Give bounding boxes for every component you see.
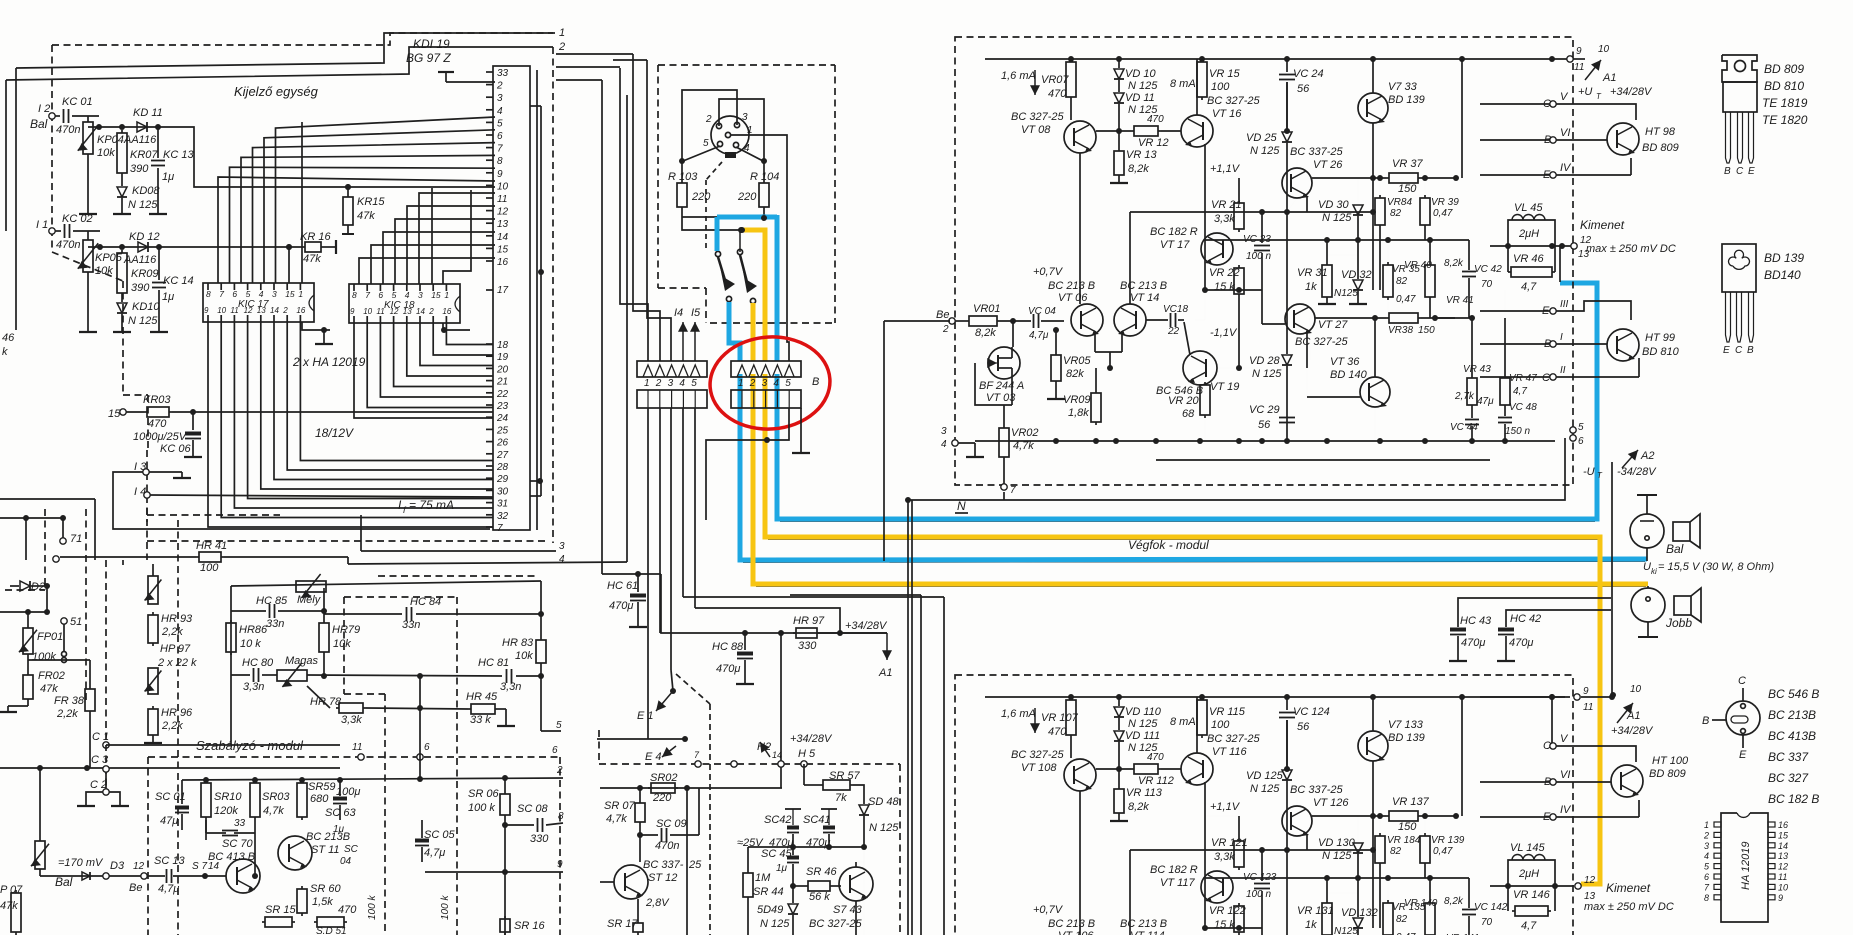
bus fan below KIC17 <box>208 322 493 527</box>
svg-text:11: 11 <box>1583 702 1593 713</box>
svg-text:16: 16 <box>1778 820 1788 830</box>
svg-text:0,47: 0,47 <box>1433 208 1453 219</box>
svg-text:14: 14 <box>416 307 425 316</box>
wire y290 row <box>1205 289 1262 291</box>
svg-text:VR 46: VR 46 <box>1513 253 1544 265</box>
svg-text:3: 3 <box>941 426 947 437</box>
svg-text:V7 33: V7 33 <box>1388 81 1418 93</box>
diode VD30 N125 <box>1353 843 1363 853</box>
dashed actuator link <box>706 162 722 180</box>
svg-text:4,7μ: 4,7μ <box>1029 330 1049 341</box>
svg-text:A1: A1 <box>1602 72 1616 84</box>
svg-text:6: 6 <box>552 745 558 756</box>
svg-text:28: 28 <box>496 462 509 473</box>
svg-text:Kijelző egység: Kijelző egység <box>234 84 319 99</box>
wire HC43 <box>1458 598 1611 627</box>
wire node7 stub <box>1003 492 1005 500</box>
connector strip B upper <box>731 361 801 377</box>
svg-text:VL 45: VL 45 <box>1514 202 1543 214</box>
svg-text:N: N <box>957 499 966 513</box>
svg-text:2: 2 <box>556 765 563 776</box>
resistor VR31 1k <box>1326 900 1328 903</box>
svg-text:VR84: VR84 <box>1387 197 1412 208</box>
svg-text:2: 2 <box>1703 830 1709 840</box>
svg-text:BD 139: BD 139 <box>1388 94 1425 106</box>
amp top rail <box>985 696 1570 698</box>
pot Magas <box>277 670 307 681</box>
svg-text:BC 337-25: BC 337-25 <box>1290 784 1343 796</box>
svg-text:AA116: AA116 <box>123 254 157 266</box>
svg-text:71: 71 <box>70 533 82 545</box>
svg-text:VR 13: VR 13 <box>1126 149 1157 161</box>
svg-text:8: 8 <box>1704 893 1709 903</box>
svg-text:SR 15: SR 15 <box>265 904 296 916</box>
wire y633 row <box>661 574 887 633</box>
arrow A2 <box>1622 450 1638 468</box>
svg-text:14: 14 <box>270 306 279 315</box>
wire DIN pin5 <box>683 146 720 161</box>
svg-text:VR 122: VR 122 <box>1209 905 1246 917</box>
node Kimenet 12 13 top amp <box>1571 243 1577 249</box>
wire KIC17 pin15 to KR16 <box>288 247 290 283</box>
svg-text:VT 16: VT 16 <box>1212 108 1242 120</box>
wire bus line 1 top <box>16 33 553 68</box>
svg-text:VC 24: VC 24 <box>1293 68 1324 80</box>
svg-text:VR 146: VR 146 <box>1513 889 1551 901</box>
svg-text:470: 470 <box>338 904 357 916</box>
capacitor SC41 470u <box>828 809 830 825</box>
svg-text:VI: VI <box>1560 769 1570 781</box>
svg-text:33: 33 <box>497 68 509 79</box>
resistor VR13 8,2k <box>1118 769 1120 786</box>
svg-text:VR 131: VR 131 <box>1297 905 1334 917</box>
svg-text:FR02: FR02 <box>38 670 65 682</box>
wire stubs right edge <box>556 66 620 68</box>
wire node 9 11 bottom <box>1480 696 1565 698</box>
svg-text:C 3: C 3 <box>91 754 109 766</box>
svg-text:BD 809: BD 809 <box>1642 142 1679 154</box>
svg-text:BD 809: BD 809 <box>1649 768 1686 780</box>
svg-text:N 125: N 125 <box>128 315 158 327</box>
svg-text:4,7k: 4,7k <box>1013 440 1034 452</box>
svg-text:56: 56 <box>1258 419 1271 431</box>
wire DIN pin4 <box>736 147 763 161</box>
svg-text:VR 139: VR 139 <box>1431 835 1465 846</box>
svg-text:+34/28V: +34/28V <box>790 733 833 745</box>
resistor VR39 0,47 <box>1424 833 1426 836</box>
svg-text:0,47: 0,47 <box>1396 294 1416 305</box>
node H5 <box>801 761 807 767</box>
dashed mid border <box>598 730 600 764</box>
svg-text:20: 20 <box>496 364 509 375</box>
svg-text:16: 16 <box>497 257 509 268</box>
wire <box>863 847 865 935</box>
black wire under blue to Bal <box>743 561 1645 562</box>
svg-text:56 k: 56 k <box>809 891 830 903</box>
svg-text:+1,1V: +1,1V <box>1210 163 1241 175</box>
wire Magas row <box>307 675 502 676</box>
svg-text:I 1: I 1 <box>36 219 48 231</box>
svg-text:1,8k: 1,8k <box>1068 407 1089 419</box>
bus fan to KIC18 <box>359 258 495 284</box>
svg-text:B: B <box>812 376 819 388</box>
svg-text:BC 327-25: BC 327-25 <box>809 918 862 930</box>
svg-text:VR 20: VR 20 <box>1168 395 1199 407</box>
resistor VR15 100 <box>1201 697 1203 700</box>
svg-text:VC 124: VC 124 <box>1293 706 1330 718</box>
svg-text:ST 12: ST 12 <box>648 872 677 884</box>
wire y847 row <box>748 846 864 848</box>
svg-text:VC 48: VC 48 <box>1509 402 1537 413</box>
svg-text:15: 15 <box>497 244 509 255</box>
svg-text:2: 2 <box>558 41 565 53</box>
svg-text:4,7μ: 4,7μ <box>158 883 179 895</box>
resistor FR02 47k <box>27 672 29 675</box>
pot FP01 100k <box>25 609 31 615</box>
resistor VR09 1,8k <box>1095 390 1097 393</box>
svg-text:U: U <box>1643 561 1651 573</box>
diode KD08 N125 <box>117 187 127 197</box>
svg-text:VT 27: VT 27 <box>1318 319 1348 331</box>
svg-text:= 75 mA: = 75 mA <box>409 498 454 512</box>
wire VT08 emitter to VT06 collector <box>1079 791 1081 935</box>
svg-text:BC 213 B: BC 213 B <box>1048 918 1095 930</box>
resistor VR84 82 <box>1379 833 1381 836</box>
wire y290 row <box>1205 927 1262 929</box>
wire node 2 row <box>419 676 421 778</box>
arrow A1 bottom <box>1617 703 1633 723</box>
svg-text:33: 33 <box>234 818 246 829</box>
svg-text:47k: 47k <box>40 683 58 695</box>
svg-text:10: 10 <box>1598 44 1610 55</box>
svg-text:47k: 47k <box>0 900 18 912</box>
svg-text:Szabályzó - modul: Szabályzó - modul <box>196 738 304 753</box>
svg-text:BC 413 B: BC 413 B <box>208 851 255 863</box>
svg-text:VR 22: VR 22 <box>1209 267 1240 279</box>
svg-text:I: I <box>1560 332 1563 343</box>
svg-text:100k: 100k <box>32 651 56 663</box>
svg-text:VR 39: VR 39 <box>1431 197 1459 208</box>
svg-text:E 4: E 4 <box>645 751 662 763</box>
svg-text:1,6 mA: 1,6 mA <box>1001 70 1036 82</box>
diode VD25 <box>1284 128 1290 134</box>
blue wire right branch to connector pin4 <box>775 215 780 361</box>
svg-text:33 k: 33 k <box>470 714 491 726</box>
svg-text:47μ: 47μ <box>160 815 178 827</box>
svg-text:10: 10 <box>1778 882 1788 892</box>
wire R104 bottom <box>763 210 765 217</box>
ground strip B <box>800 408 802 448</box>
svg-text:BC 327-25: BC 327-25 <box>1207 95 1260 107</box>
node 11 <box>358 754 364 760</box>
svg-text:KR03: KR03 <box>143 394 171 406</box>
svg-text:VT 19: VT 19 <box>1210 381 1239 393</box>
amp wire top right <box>1461 59 1463 178</box>
svg-text:KD08: KD08 <box>132 185 160 197</box>
svg-text:10: 10 <box>497 181 509 192</box>
node Kimenet 12 13 bottom amp <box>1575 883 1581 889</box>
svg-text:8,2k: 8,2k <box>1128 163 1149 175</box>
svg-text:BC 213 B: BC 213 B <box>1120 280 1167 292</box>
wire <box>88 246 160 248</box>
node 51 <box>61 618 67 624</box>
svg-text:SR 16: SR 16 <box>514 920 545 932</box>
svg-text:21: 21 <box>496 377 508 388</box>
wire mid column <box>1204 166 1206 290</box>
svg-text:SR59: SR59 <box>308 781 336 793</box>
resistor VR35 82 <box>1387 262 1389 265</box>
svg-text:25: 25 <box>496 425 509 436</box>
diode VD25 <box>1284 766 1290 772</box>
capacitor VC24 56 <box>1286 697 1288 710</box>
pot input Bal <box>39 768 41 841</box>
svg-text:150: 150 <box>1418 325 1435 336</box>
svg-text:220: 220 <box>652 792 672 804</box>
svg-text:Bal: Bal <box>55 875 73 889</box>
svg-text:III: III <box>1560 299 1569 310</box>
svg-text:R 104: R 104 <box>750 171 779 183</box>
svg-text:BC 327-25: BC 327-25 <box>1011 111 1064 123</box>
svg-text:D3: D3 <box>110 860 125 872</box>
svg-text:100 n: 100 n <box>1246 251 1271 262</box>
svg-text:9: 9 <box>1778 893 1783 903</box>
wire 3 line <box>360 515 362 551</box>
svg-text:HC 42: HC 42 <box>1510 613 1541 625</box>
wire HC42 <box>1506 610 1611 627</box>
svg-text:SR 46: SR 46 <box>806 866 837 878</box>
svg-text:3: 3 <box>1704 841 1709 851</box>
svg-text:10k: 10k <box>333 638 351 650</box>
wire VT14 collector up <box>1129 850 1131 935</box>
svg-text:11: 11 <box>1574 62 1584 73</box>
svg-text:3: 3 <box>418 290 423 300</box>
svg-text:2: 2 <box>282 306 288 315</box>
svg-text:56: 56 <box>1297 83 1310 95</box>
svg-text:A1: A1 <box>1626 710 1640 722</box>
connector column <box>493 66 530 530</box>
svg-text:9: 9 <box>497 169 503 180</box>
svg-text:2 x 22 k: 2 x 22 k <box>157 657 197 669</box>
svg-text:100 k: 100 k <box>468 802 495 814</box>
diode KD10 N125 <box>117 303 127 313</box>
resistor SR10 120k <box>205 780 207 783</box>
svg-text:HR 78: HR 78 <box>310 696 342 708</box>
svg-text:VR 107: VR 107 <box>1041 712 1079 724</box>
svg-text:1: 1 <box>559 27 565 39</box>
svg-text:8 mA: 8 mA <box>1170 716 1196 728</box>
svg-text:B: B <box>1724 166 1731 177</box>
svg-text:BC 327: BC 327 <box>1768 771 1809 785</box>
resistor VR12 470 <box>1131 130 1134 132</box>
wire <box>28 659 90 661</box>
svg-text:KR 16: KR 16 <box>300 231 331 243</box>
svg-text:VC 142: VC 142 <box>1474 902 1508 913</box>
wires into strip A <box>620 68 648 361</box>
wire R103 bottom <box>682 210 741 230</box>
resistor VR21 3,3k <box>1238 200 1240 203</box>
svg-text:SC: SC <box>344 844 359 855</box>
yellow wire pin3 to bottom amp Kimenet <box>765 374 1600 884</box>
svg-text:25: 25 <box>688 859 702 871</box>
svg-text:N 125: N 125 <box>1250 783 1280 795</box>
svg-text:VR38: VR38 <box>1388 325 1413 336</box>
svg-text:6: 6 <box>1704 872 1709 882</box>
svg-text:VR 140: VR 140 <box>1404 898 1438 909</box>
svg-text:3: 3 <box>668 378 674 389</box>
svg-text:k: k <box>2 346 8 358</box>
svg-text:470n: 470n <box>56 239 80 251</box>
svg-text:VT 114: VT 114 <box>1130 930 1165 935</box>
svg-text:TE 1819: TE 1819 <box>1762 96 1808 110</box>
resistor VR40 0,47 <box>1429 262 1431 265</box>
svg-text:KDI 19: KDI 19 <box>413 37 450 51</box>
svg-text:VR 37: VR 37 <box>1392 158 1423 170</box>
IC package HA12019 DIP16 <box>1721 813 1768 922</box>
wire <box>1372 761 1374 928</box>
svg-text:9: 9 <box>1576 46 1582 57</box>
svg-text:2: 2 <box>428 307 434 316</box>
svg-text:10 k: 10 k <box>240 638 261 650</box>
svg-text:4,7k: 4,7k <box>263 805 284 817</box>
diode VD32 N125 <box>1353 918 1363 928</box>
svg-text:BD 810: BD 810 <box>1642 346 1680 358</box>
svg-text:TE 1820: TE 1820 <box>1762 113 1808 127</box>
svg-text:8: 8 <box>558 811 564 822</box>
inductor VL45 2uH <box>1508 220 1555 246</box>
svg-text:HC 85: HC 85 <box>256 595 288 607</box>
wire VT27 down <box>1309 333 1311 360</box>
svg-text:HT 100: HT 100 <box>1652 755 1689 767</box>
svg-text:N 125: N 125 <box>1322 212 1352 224</box>
svg-text:26: 26 <box>496 438 509 449</box>
capacitor SC42 470u <box>792 809 794 825</box>
svg-text:VR 31: VR 31 <box>1297 267 1328 279</box>
svg-text:8,2k: 8,2k <box>1444 258 1464 269</box>
resistor VR46 4,7 <box>1507 246 1509 272</box>
svg-text:VR05: VR05 <box>1063 355 1091 367</box>
bus fan below KIC18 <box>354 323 493 418</box>
speaker Bal terminal top <box>1646 495 1648 514</box>
capacitor VC18 22 <box>1146 319 1168 321</box>
svg-text:N125: N125 <box>1334 288 1358 299</box>
svg-text:+34/28V: +34/28V <box>1610 86 1653 98</box>
svg-text:1: 1 <box>738 378 744 389</box>
switch levers <box>718 257 735 291</box>
amp wire top right <box>1461 697 1463 816</box>
wire Kimenet bottom <box>1490 885 1574 887</box>
blue wire pin4 to top amp Kimenet <box>777 283 1597 519</box>
svg-text:7: 7 <box>497 144 503 155</box>
node 6 <box>417 754 423 760</box>
svg-text:C: C <box>1542 372 1550 384</box>
svg-text:22: 22 <box>1167 326 1180 337</box>
svg-text:6: 6 <box>1578 436 1584 447</box>
svg-text:70: 70 <box>1481 279 1493 290</box>
svg-text:HR86: HR86 <box>239 624 268 636</box>
long verticals center <box>601 80 603 574</box>
transistor VT27 BC327-25 <box>1285 304 1315 334</box>
svg-text:V7 133: V7 133 <box>1388 719 1424 731</box>
svg-text:BD 139: BD 139 <box>1764 251 1804 265</box>
svg-text:8,2k: 8,2k <box>1444 896 1464 907</box>
svg-text:3,3n: 3,3n <box>243 681 264 693</box>
svg-text:HT 98: HT 98 <box>1645 126 1676 138</box>
svg-text:470μ: 470μ <box>609 600 633 612</box>
red highlight ellipse <box>707 333 833 433</box>
svg-text:5: 5 <box>691 378 697 389</box>
svg-text:HR 41: HR 41 <box>196 540 227 552</box>
svg-text:BC 546 B: BC 546 B <box>1768 687 1819 701</box>
svg-text:KC 01: KC 01 <box>62 96 93 108</box>
svg-text:VC 44: VC 44 <box>1450 422 1478 433</box>
svg-text:68: 68 <box>1182 408 1195 420</box>
svg-text:Mély: Mély <box>297 594 322 606</box>
svg-text:2,2k: 2,2k <box>161 626 183 638</box>
svg-text:4: 4 <box>679 378 685 389</box>
junction dot on blue <box>761 215 767 221</box>
svg-text:=170 mV: =170 mV <box>58 857 104 869</box>
svg-text:HC 43: HC 43 <box>1460 615 1492 627</box>
svg-text:Magas: Magas <box>285 655 319 667</box>
svg-text:11: 11 <box>497 194 507 205</box>
resistor KR09 390 <box>121 250 123 253</box>
svg-text:HA 12019: HA 12019 <box>1740 841 1752 890</box>
svg-text:KP04: KP04 <box>97 134 124 146</box>
DIN block dashed border <box>658 64 835 66</box>
svg-text:VT 117: VT 117 <box>1160 877 1196 889</box>
wire VT26 emitter <box>1306 196 1308 212</box>
resistor SR44 1M <box>747 847 749 870</box>
wire node 9 11 top <box>1567 56 1573 62</box>
resistor VR12 470 <box>1131 768 1134 770</box>
svg-text:VR 115: VR 115 <box>1209 706 1246 718</box>
svg-text:KIC 17: KIC 17 <box>238 299 269 310</box>
svg-text:100: 100 <box>200 562 219 574</box>
svg-text:KC 14: KC 14 <box>163 275 194 287</box>
svg-text:10: 10 <box>363 307 372 316</box>
svg-text:4,7: 4,7 <box>1513 386 1527 397</box>
ground KDI <box>446 81 495 83</box>
node mid <box>731 761 737 767</box>
svg-text:3: 3 <box>497 93 503 104</box>
svg-text:VR 112: VR 112 <box>1138 775 1174 787</box>
svg-text:470μ: 470μ <box>1461 637 1485 649</box>
svg-text:1000μ/25V: 1000μ/25V <box>133 431 188 443</box>
svg-text:1,5k: 1,5k <box>312 896 333 908</box>
svg-text:SC42: SC42 <box>764 814 792 826</box>
svg-text:SR10: SR10 <box>214 791 242 803</box>
capacitor VC04 4,7u <box>1033 314 1035 328</box>
svg-text:VT 17: VT 17 <box>1160 239 1190 251</box>
svg-text:VR 41: VR 41 <box>1446 295 1474 306</box>
svg-text:SR 06: SR 06 <box>468 788 499 800</box>
pot Mely <box>296 581 326 592</box>
resistor SR07 4,7k <box>639 800 641 803</box>
resistor FR38 2,2k <box>89 686 91 689</box>
svg-text:BC 337: BC 337 <box>1768 750 1809 764</box>
resistor SR46 56k <box>793 885 805 887</box>
svg-text:11: 11 <box>352 742 362 753</box>
svg-text:KC 06: KC 06 <box>160 443 191 455</box>
svg-text:470n: 470n <box>56 124 80 136</box>
svg-text:1: 1 <box>1704 820 1709 830</box>
wire Kimenet top <box>1490 245 1571 247</box>
svg-text:+34/28V: +34/28V <box>1611 725 1654 737</box>
svg-text:2: 2 <box>705 114 712 125</box>
svg-text:H 5: H 5 <box>798 748 816 760</box>
capacitor KC01 470n <box>55 115 60 117</box>
svg-text:Bal: Bal <box>1666 542 1684 556</box>
